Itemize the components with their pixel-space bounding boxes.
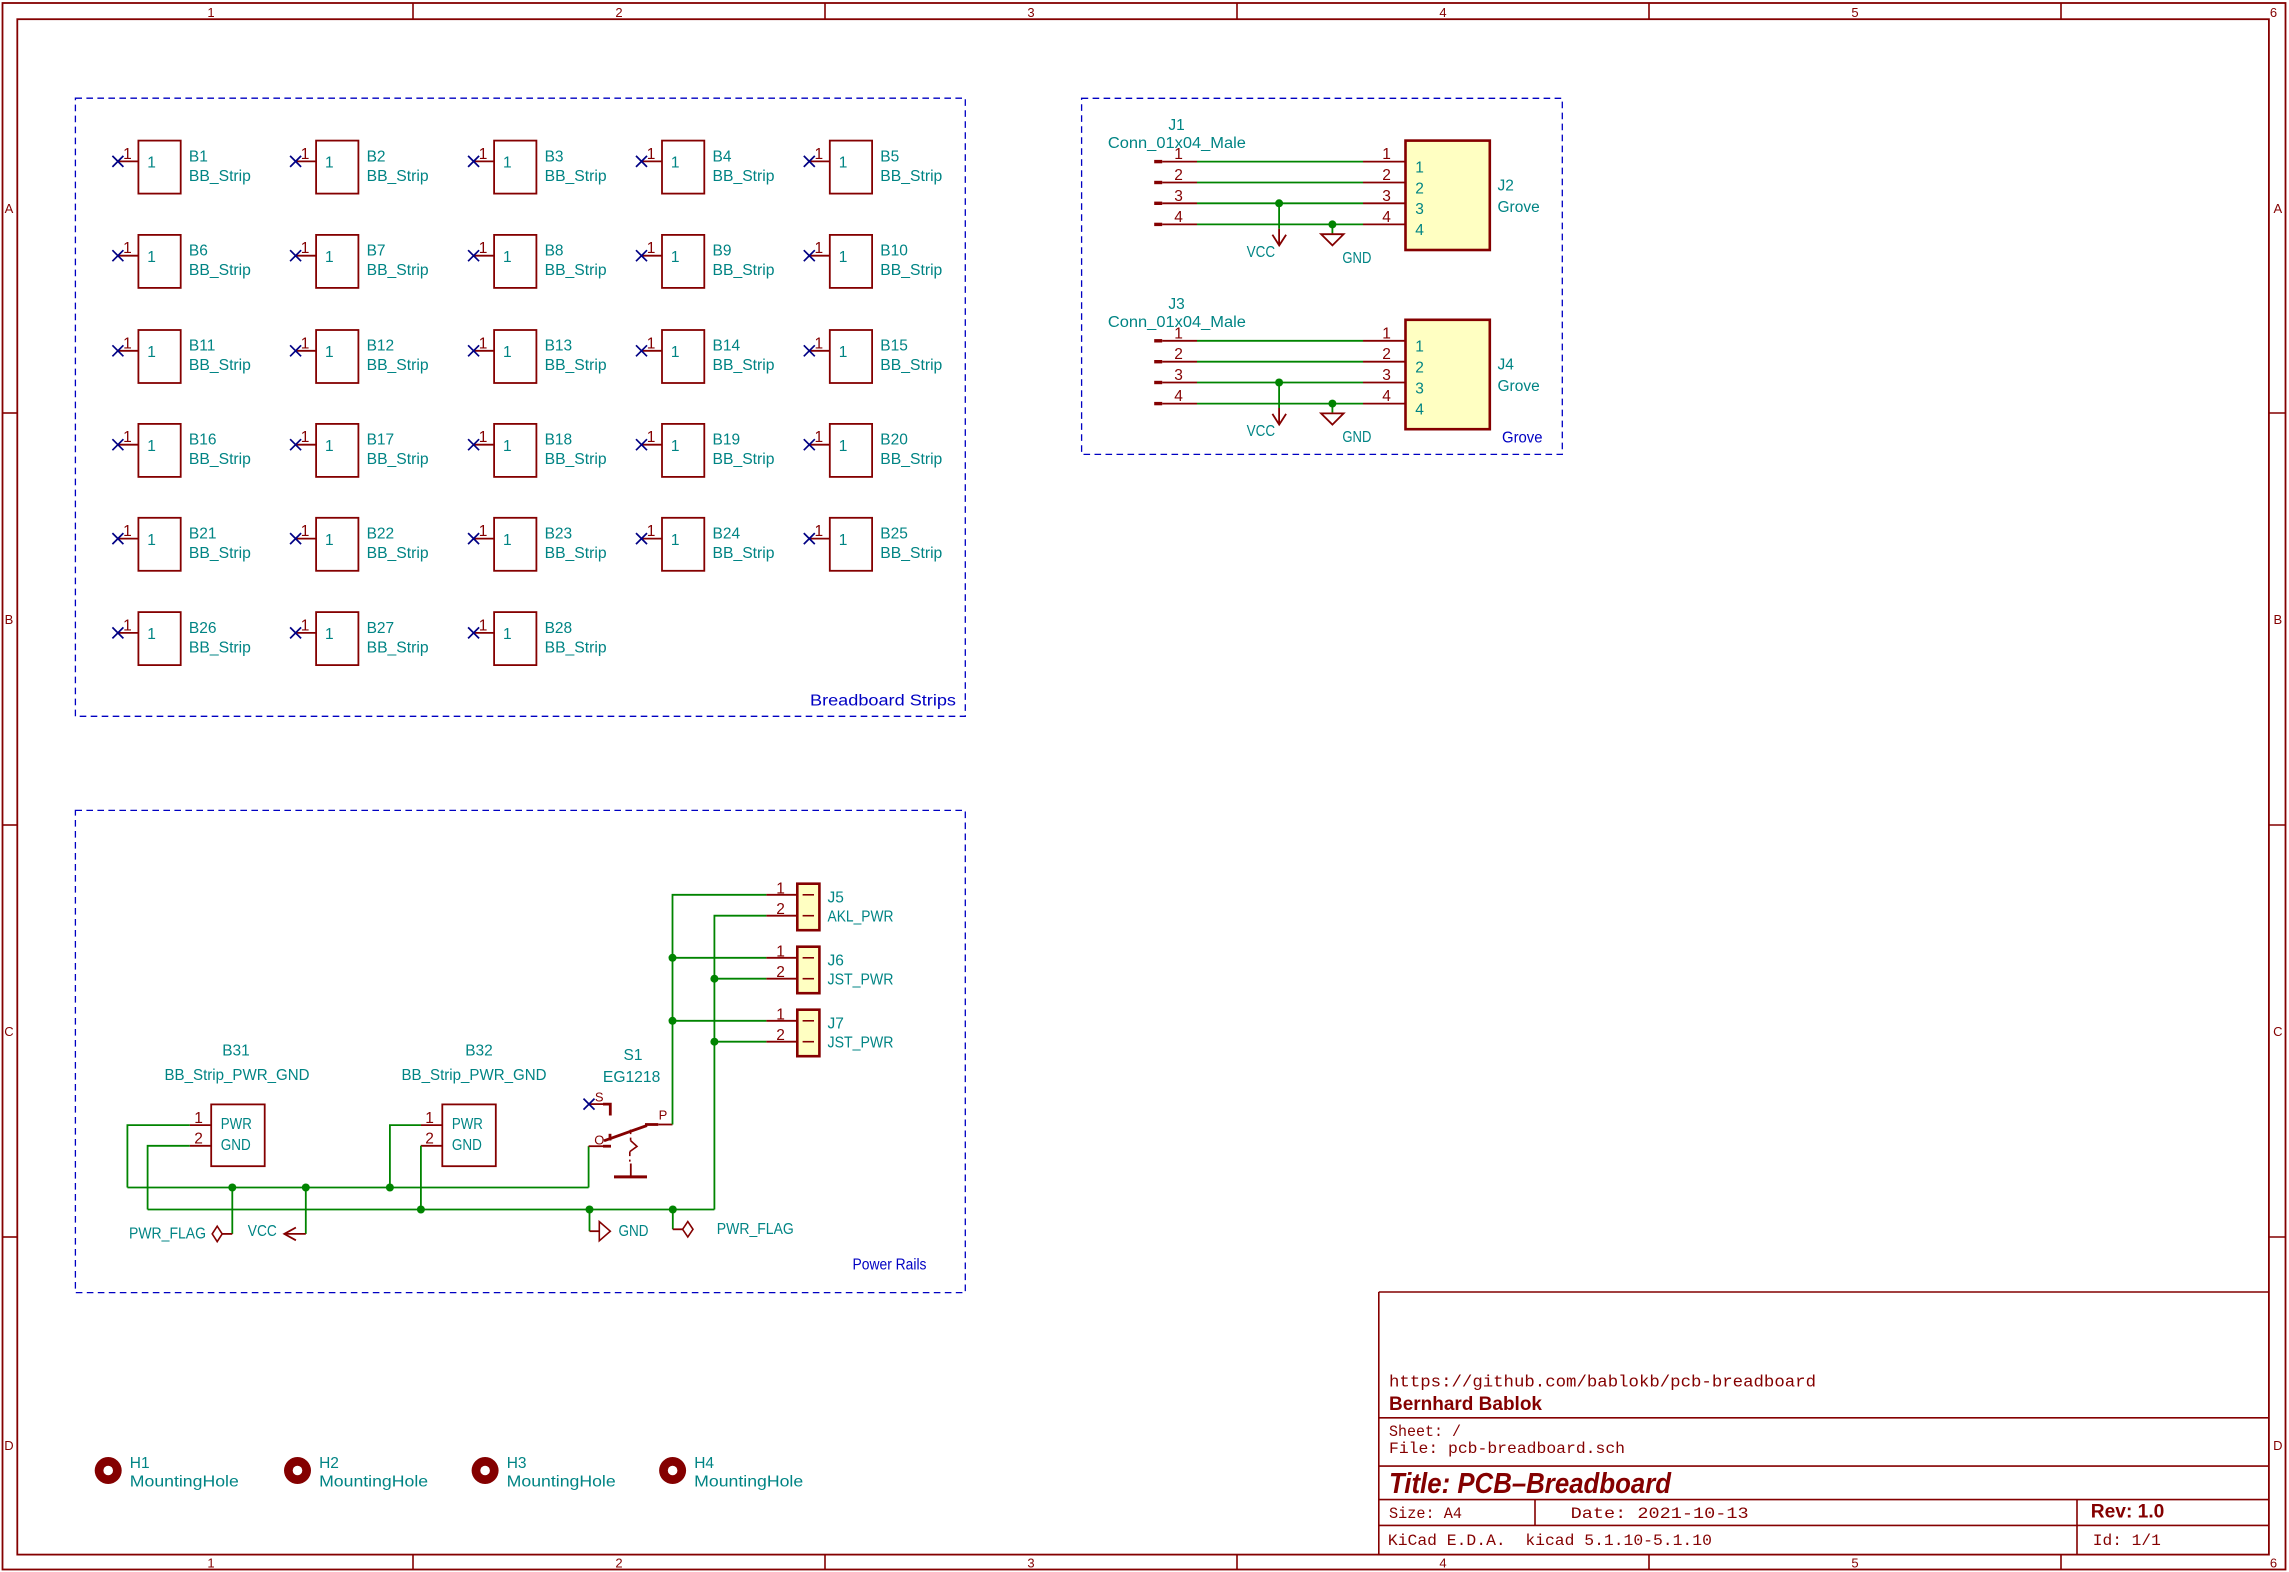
B32 pin 2 GND — [421, 1131, 482, 1154]
svg-text:1: 1 — [1415, 339, 1424, 356]
junction VCC rail / PWR_FLAG — [228, 1184, 236, 1192]
svg-text:1: 1 — [503, 155, 512, 172]
svg-text:B7: B7 — [367, 243, 386, 260]
BB_Strip B9 — [636, 235, 775, 288]
svg-text:1: 1 — [325, 249, 334, 266]
svg-text:GND: GND — [619, 1223, 649, 1240]
connector J4 Grove — [1363, 320, 1540, 429]
BB_Strip B3 — [468, 141, 606, 194]
svg-text:1: 1 — [776, 880, 785, 897]
wire J1 pin 2 to J2 pin 2 — [1197, 182, 1363, 184]
svg-text:VCC: VCC — [1247, 423, 1276, 440]
J5 pin 2 — [766, 901, 814, 918]
svg-text:1: 1 — [814, 335, 823, 352]
svg-text:1: 1 — [325, 344, 334, 361]
svg-text:JST_PWR: JST_PWR — [828, 971, 894, 988]
svg-text:PWR: PWR — [221, 1116, 252, 1133]
BB_Strip B11 — [112, 330, 251, 383]
svg-text:3: 3 — [1382, 367, 1391, 384]
svg-text:3: 3 — [1382, 188, 1391, 205]
J1 pin 1 — [1154, 146, 1197, 163]
B28 no-connect — [468, 627, 479, 638]
B13 pin 1 — [474, 350, 495, 352]
power flag PWR_FLAG (right) — [673, 1221, 794, 1238]
svg-text:1: 1 — [301, 146, 310, 163]
connector J3 Conn_01x04_Male — [1108, 296, 1246, 405]
B28 pin 1 — [474, 632, 495, 634]
svg-text:VCC: VCC — [1247, 244, 1276, 261]
Power Rails group box — [75, 810, 965, 1292]
J2 pin 3 — [1363, 188, 1424, 218]
BB_Strip B13 — [468, 330, 606, 383]
wire B32 pin1 down to VCC rail — [390, 1125, 421, 1187]
svg-text:1: 1 — [425, 1110, 434, 1127]
svg-text:1: 1 — [479, 240, 488, 257]
svg-text:1: 1 — [1382, 146, 1391, 163]
svg-text:Bernhard Bablok: Bernhard Bablok — [1389, 1394, 1542, 1415]
svg-text:B28: B28 — [545, 620, 573, 637]
power symbol VCC — [1247, 408, 1287, 440]
svg-text:1: 1 — [503, 532, 512, 549]
J2 pin 1 — [1363, 146, 1424, 176]
svg-text:B: B — [2273, 612, 2282, 627]
BB_Strip B27 — [290, 612, 429, 665]
junction on J1 pin 3 wire (VCC) — [1275, 199, 1283, 207]
svg-text:3: 3 — [1027, 1556, 1034, 1571]
svg-text:MountingHole: MountingHole — [507, 1474, 616, 1491]
wire J1 pin 1 to J2 pin 1 — [1197, 161, 1363, 163]
Grove group box — [1082, 98, 1563, 454]
svg-text:1: 1 — [147, 249, 156, 266]
svg-text:BB_Strip: BB_Strip — [545, 451, 607, 468]
svg-text:1: 1 — [839, 155, 848, 172]
svg-text:BB_Strip: BB_Strip — [713, 357, 775, 374]
svg-text:B16: B16 — [189, 432, 217, 449]
svg-text:Power Rails: Power Rails — [853, 1257, 927, 1274]
svg-text:1: 1 — [1174, 325, 1183, 342]
svg-text:3: 3 — [1174, 367, 1183, 384]
svg-text:1: 1 — [123, 146, 132, 163]
svg-text:1: 1 — [123, 523, 132, 540]
svg-text:1: 1 — [1174, 146, 1183, 163]
svg-text:MountingHole: MountingHole — [319, 1474, 428, 1491]
S1 pin S — [589, 1090, 604, 1105]
B24 no-connect — [636, 533, 647, 544]
svg-text:BB_Strip: BB_Strip — [880, 168, 942, 185]
svg-text:BB_Strip: BB_Strip — [367, 639, 429, 656]
svg-text:H3: H3 — [507, 1455, 527, 1472]
svg-text:B25: B25 — [880, 526, 908, 543]
svg-text:2: 2 — [615, 1556, 622, 1571]
svg-text:2: 2 — [425, 1131, 434, 1148]
svg-text:1: 1 — [647, 335, 656, 352]
svg-text:D: D — [2273, 1438, 2282, 1453]
svg-text:BB_Strip: BB_Strip — [545, 639, 607, 656]
B22 pin 1 — [296, 538, 317, 540]
mounting hole H4 — [659, 1455, 803, 1491]
svg-text:H2: H2 — [319, 1455, 339, 1472]
svg-text:1: 1 — [123, 335, 132, 352]
B23 pin 1 — [474, 538, 495, 540]
svg-text:2: 2 — [1174, 167, 1183, 184]
junction on J3 pin 4 wire (GND) — [1328, 400, 1336, 408]
J4 pin 1 — [1363, 325, 1424, 355]
svg-text:1: 1 — [839, 438, 848, 455]
power symbol GND (right arrow) — [590, 1222, 649, 1241]
svg-text:2: 2 — [1174, 346, 1183, 363]
connector J2 Grove — [1363, 141, 1540, 250]
B31 pin 2 GND — [190, 1131, 251, 1154]
wire GND bus to J5 pin2 — [714, 916, 766, 1210]
svg-text:1: 1 — [503, 626, 512, 643]
svg-text:B15: B15 — [880, 338, 908, 355]
svg-text:BB_Strip: BB_Strip — [189, 168, 251, 185]
svg-text:B1: B1 — [189, 148, 208, 165]
svg-text:1: 1 — [207, 1556, 214, 1571]
svg-text:MountingHole: MountingHole — [694, 1474, 803, 1491]
wire to GND — [1331, 224, 1333, 233]
B2 no-connect — [290, 156, 301, 167]
B7 no-connect — [290, 250, 301, 261]
svg-text:2: 2 — [194, 1131, 203, 1148]
svg-text:1: 1 — [814, 523, 823, 540]
svg-text:BB_Strip: BB_Strip — [189, 357, 251, 374]
svg-text:2: 2 — [1382, 346, 1391, 363]
B1 no-connect — [112, 156, 123, 167]
svg-text:BB_Strip: BB_Strip — [367, 357, 429, 374]
junction on J1 pin 4 wire (GND) — [1328, 220, 1336, 228]
wire J3 pin 1 to J4 pin 1 — [1197, 340, 1363, 342]
svg-text:KiCad E.D.A. kicad 5.1.10-5.1: KiCad E.D.A. kicad 5.1.10-5.1.10 — [1388, 1532, 1712, 1550]
svg-text:1: 1 — [1382, 325, 1391, 342]
svg-text:BB_Strip: BB_Strip — [367, 168, 429, 185]
svg-text:B2: B2 — [367, 148, 386, 165]
BB_Strip B1 — [112, 141, 251, 194]
svg-text:4: 4 — [1174, 209, 1183, 226]
VCC rail horizontal wire — [127, 1187, 588, 1189]
svg-text:Grove: Grove — [1502, 429, 1543, 446]
svg-text:2: 2 — [776, 1027, 785, 1044]
B11 pin 1 — [118, 350, 138, 352]
BB_Strip B16 — [112, 424, 251, 477]
svg-text:1: 1 — [671, 532, 680, 549]
wire B32 pin2 down to GND rail — [420, 1146, 422, 1210]
BB_Strip B10 — [804, 235, 943, 288]
svg-text:6: 6 — [2270, 5, 2277, 20]
svg-text:1: 1 — [325, 438, 334, 455]
svg-text:B27: B27 — [367, 620, 395, 637]
svg-text:Grove: Grove — [1498, 199, 1540, 216]
svg-text:PWR_FLAG: PWR_FLAG — [129, 1226, 206, 1243]
B8 no-connect — [468, 250, 479, 261]
svg-text:1: 1 — [839, 532, 848, 549]
svg-text:B10: B10 — [880, 243, 908, 260]
svg-text:1: 1 — [325, 626, 334, 643]
svg-text:PWR_FLAG: PWR_FLAG — [717, 1221, 794, 1238]
B17 no-connect — [290, 439, 301, 450]
B18 no-connect — [468, 439, 479, 450]
BB_Strip B12 — [290, 330, 429, 383]
svg-text:1: 1 — [776, 1006, 785, 1023]
svg-text:D: D — [4, 1438, 13, 1453]
BB_Strip B26 — [112, 612, 251, 665]
B18 pin 1 — [474, 444, 495, 446]
B6 pin 1 — [118, 255, 138, 257]
svg-text:BB_Strip: BB_Strip — [880, 451, 942, 468]
B15 no-connect — [804, 345, 815, 356]
svg-text:1: 1 — [1415, 159, 1424, 176]
power symbol GND — [1321, 233, 1371, 267]
BB_Strip B15 — [804, 330, 943, 383]
B14 pin 1 — [642, 350, 663, 352]
J1 pin 4 — [1154, 209, 1197, 226]
svg-text:PWR: PWR — [452, 1116, 483, 1133]
svg-text:1: 1 — [194, 1110, 203, 1127]
BB_Strip B24 — [636, 518, 775, 571]
BB_Strip B19 — [636, 424, 775, 477]
wire VCC rail to PWR_FLAG left — [231, 1188, 233, 1234]
svg-text:1: 1 — [671, 438, 680, 455]
svg-text:H4: H4 — [694, 1455, 714, 1472]
svg-text:GND: GND — [1342, 250, 1371, 267]
wire to VCC — [1278, 383, 1280, 409]
B12 pin 1 — [296, 350, 317, 352]
Breadboard Strips group box — [75, 98, 965, 716]
svg-text:J7: J7 — [828, 1015, 844, 1032]
BB_Strip_PWR_GND B31 — [165, 1043, 310, 1167]
B19 pin 1 — [642, 444, 663, 446]
svg-text:B11: B11 — [189, 338, 215, 355]
power symbol VCC — [1247, 229, 1287, 261]
wire to VCC — [1278, 203, 1280, 229]
B26 pin 1 — [118, 632, 138, 634]
svg-text:Title: PCB–Breadboard: Title: PCB–Breadboard — [1389, 1468, 1672, 1500]
B32 pin 1 PWR — [421, 1110, 483, 1133]
svg-text:1: 1 — [503, 438, 512, 455]
svg-text:B22: B22 — [367, 526, 395, 543]
svg-text:B13: B13 — [545, 338, 573, 355]
svg-text:1: 1 — [301, 617, 310, 634]
B1 pin 1 — [118, 160, 138, 162]
svg-text:GND: GND — [221, 1137, 251, 1154]
S1 pin P — [658, 1108, 672, 1125]
J6 pin 2 — [766, 964, 814, 981]
wire GND rail to GND symbol — [589, 1210, 591, 1232]
svg-text:1: 1 — [814, 146, 823, 163]
BB_Strip B14 — [636, 330, 775, 383]
junction GND bus / J6 pin2 — [710, 975, 718, 983]
svg-text:BB_Strip: BB_Strip — [545, 545, 607, 562]
svg-text:4: 4 — [1415, 222, 1424, 239]
B14 no-connect — [636, 345, 647, 356]
svg-text:B5: B5 — [880, 148, 899, 165]
B4 pin 1 — [642, 160, 663, 162]
svg-text:J1: J1 — [1168, 117, 1184, 134]
svg-text:BB_Strip: BB_Strip — [545, 168, 607, 185]
svg-text:1: 1 — [123, 429, 132, 446]
svg-text:1: 1 — [776, 943, 785, 960]
svg-text:3: 3 — [1174, 188, 1183, 205]
svg-text:JST_PWR: JST_PWR — [828, 1034, 894, 1051]
svg-text:1: 1 — [301, 523, 310, 540]
svg-text:Rev: 1.0: Rev: 1.0 — [2091, 1502, 2165, 1523]
svg-text:BB_Strip: BB_Strip — [189, 451, 251, 468]
svg-text:C: C — [2273, 1024, 2282, 1039]
B27 no-connect — [290, 627, 301, 638]
BB_Strip B8 — [468, 235, 606, 288]
B21 no-connect — [112, 533, 123, 544]
power symbol VCC (left arrow) — [248, 1223, 306, 1240]
junction GND rail / B32 pin2 — [417, 1206, 425, 1214]
J2 pin 4 — [1363, 209, 1424, 239]
svg-text:J6: J6 — [828, 952, 844, 969]
wire branch to J7 pin2 — [714, 1041, 766, 1043]
B6 no-connect — [112, 250, 123, 261]
power flag PWR_FLAG (left) — [129, 1226, 232, 1243]
svg-text:https://github.com/bablokb/pcb: https://github.com/bablokb/pcb-breadboar… — [1389, 1374, 1816, 1393]
BB_Strip B4 — [636, 141, 775, 194]
svg-text:4: 4 — [1382, 388, 1391, 405]
B3 pin 1 — [474, 160, 495, 162]
B20 pin 1 — [809, 444, 830, 446]
svg-text:2: 2 — [776, 901, 785, 918]
svg-text:1: 1 — [839, 249, 848, 266]
junction GND rail / GND symbol — [586, 1206, 594, 1214]
svg-text:A: A — [5, 201, 14, 216]
svg-text:BB_Strip: BB_Strip — [880, 357, 942, 374]
svg-text:BB_Strip: BB_Strip — [713, 168, 775, 185]
svg-text:1: 1 — [123, 617, 132, 634]
svg-text:1: 1 — [479, 429, 488, 446]
connector J6 JST_PWR — [766, 943, 893, 993]
svg-text:O: O — [594, 1133, 604, 1148]
mounting hole H2 — [284, 1455, 428, 1491]
svg-text:1: 1 — [301, 335, 310, 352]
B23 no-connect — [468, 533, 479, 544]
svg-text:4: 4 — [1439, 1556, 1446, 1571]
J2 pin 2 — [1363, 167, 1424, 197]
B20 no-connect — [804, 439, 815, 450]
J4 pin 2 — [1363, 346, 1424, 376]
B27 pin 1 — [296, 632, 317, 634]
J3 pin 3 — [1154, 367, 1197, 384]
B26 no-connect — [112, 627, 123, 638]
svg-text:5: 5 — [1851, 5, 1858, 20]
B8 pin 1 — [474, 255, 495, 257]
J3 pin 2 — [1154, 346, 1197, 363]
wire branch to J6 pin1 — [673, 957, 767, 959]
B25 no-connect — [804, 533, 815, 544]
title block — [1379, 1292, 2269, 1555]
wire J3 pin 4 to J4 pin 4 — [1197, 403, 1363, 405]
svg-text:C: C — [4, 1024, 13, 1039]
BB_Strip B5 — [804, 141, 943, 194]
svg-text:H1: H1 — [130, 1455, 150, 1472]
wire branch to J7 pin1 — [673, 1020, 767, 1022]
svg-text:B14: B14 — [713, 338, 741, 355]
BB_Strip B23 — [468, 518, 606, 571]
J4 pin 3 — [1363, 367, 1424, 397]
svg-text:4: 4 — [1174, 388, 1183, 405]
svg-text:B20: B20 — [880, 432, 908, 449]
svg-text:4: 4 — [1382, 209, 1391, 226]
svg-text:J4: J4 — [1498, 357, 1515, 374]
power symbol GND — [1321, 412, 1371, 446]
svg-text:4: 4 — [1415, 401, 1424, 418]
svg-text:J2: J2 — [1498, 178, 1514, 195]
B10 pin 1 — [809, 255, 830, 257]
BB_Strip B6 — [112, 235, 251, 288]
svg-text:1: 1 — [814, 240, 823, 257]
B24 pin 1 — [642, 538, 663, 540]
J7 pin 1 — [766, 1006, 814, 1023]
junction P bus / J6 pin1 — [669, 954, 677, 962]
B5 pin 1 — [809, 160, 830, 162]
wire J1 pin 4 to J2 pin 4 — [1197, 223, 1363, 225]
svg-text:MountingHole: MountingHole — [130, 1474, 239, 1491]
S1 P contact — [645, 1123, 658, 1126]
connector J5 AKL_PWR — [766, 880, 893, 930]
svg-text:BB_Strip: BB_Strip — [367, 451, 429, 468]
svg-text:Grove: Grove — [1498, 378, 1540, 395]
switch S1 EG1218 — [584, 1047, 673, 1177]
svg-text:S1: S1 — [624, 1047, 643, 1064]
svg-text:BB_Strip: BB_Strip — [713, 262, 775, 279]
svg-text:BB_Strip_PWR_GND: BB_Strip_PWR_GND — [165, 1067, 310, 1084]
svg-text:BB_Strip: BB_Strip — [880, 545, 942, 562]
B3 no-connect — [468, 156, 479, 167]
J5 pin 1 — [766, 880, 814, 897]
svg-text:3: 3 — [1027, 5, 1034, 20]
wire switch O pin to VCC rail — [588, 1146, 590, 1187]
junction on J3 pin 3 wire (VCC) — [1275, 379, 1283, 387]
BB_Strip B21 — [112, 518, 251, 571]
svg-text:BB_Strip: BB_Strip — [367, 545, 429, 562]
svg-text:1: 1 — [479, 146, 488, 163]
svg-text:BB_Strip: BB_Strip — [880, 262, 942, 279]
svg-text:BB_Strip: BB_Strip — [545, 262, 607, 279]
svg-text:1: 1 — [301, 429, 310, 446]
svg-text:B23: B23 — [545, 526, 573, 543]
B5 no-connect — [804, 156, 815, 167]
svg-text:Id: 1/1: Id: 1/1 — [2093, 1532, 2161, 1550]
svg-text:B21: B21 — [189, 526, 217, 543]
svg-text:1: 1 — [671, 155, 680, 172]
BB_Strip B25 — [804, 518, 943, 571]
S1 O contact — [609, 1134, 612, 1141]
svg-text:B6: B6 — [189, 243, 208, 260]
svg-text:1: 1 — [647, 240, 656, 257]
svg-text:B17: B17 — [367, 432, 395, 449]
svg-text:GND: GND — [1342, 429, 1371, 446]
wire to GND — [1331, 404, 1333, 413]
svg-text:S: S — [595, 1090, 604, 1105]
wire switch P to J5 pin1 bus — [673, 895, 767, 1125]
svg-text:BB_Strip: BB_Strip — [189, 545, 251, 562]
svg-text:2: 2 — [1382, 167, 1391, 184]
svg-text:1: 1 — [123, 240, 132, 257]
svg-text:1: 1 — [207, 5, 214, 20]
svg-text:A: A — [2273, 201, 2282, 216]
S1 no-connect on S — [584, 1099, 595, 1110]
svg-text:1: 1 — [647, 429, 656, 446]
svg-text:B24: B24 — [713, 526, 741, 543]
B2 pin 1 — [296, 160, 317, 162]
B21 pin 1 — [118, 538, 138, 540]
svg-text:1: 1 — [503, 344, 512, 361]
wire J3 pin 2 to J4 pin 2 — [1197, 361, 1363, 363]
B10 no-connect — [804, 250, 815, 261]
